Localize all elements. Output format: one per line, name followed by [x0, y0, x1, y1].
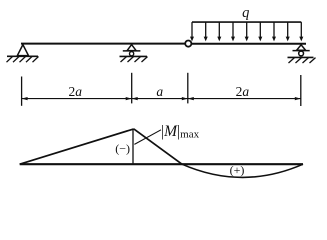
moment right descent line: [134, 129, 182, 164]
dim arrow right of a segment: [182, 97, 188, 100]
support A ground line: [7, 55, 38, 57]
support B base line: [123, 50, 141, 52]
dimension extension tick at A: [21, 77, 23, 106]
moment diagram left slope line: [20, 129, 134, 164]
dim arrow left of right 2a segment: [188, 97, 194, 100]
svg-text:a: a: [156, 84, 163, 99]
right beam C-D: [191, 43, 306, 45]
load arrow 1: [190, 22, 194, 41]
load arrow 2: [204, 22, 208, 41]
dim arrow right of 2a segment: [126, 97, 132, 100]
support D ground line: [288, 56, 314, 58]
load arrow 7: [272, 22, 276, 41]
support B roller circle: [130, 52, 134, 56]
support B hatching: [121, 57, 148, 62]
svg-text:q: q: [242, 5, 249, 21]
load arrow 3: [217, 22, 221, 41]
dimension extension tick at B: [131, 73, 133, 104]
dimension line: [22, 98, 301, 100]
support B ground line: [120, 55, 148, 57]
svg-text:|M|max: |M|max: [161, 123, 200, 140]
svg-text:(+): (+): [230, 163, 245, 177]
support D roller circle: [299, 51, 304, 56]
moment parabola (positive region): [182, 164, 303, 177]
hinge C: [185, 41, 191, 47]
moment diagram baseline: [20, 163, 303, 165]
support A hatching: [7, 57, 39, 63]
svg-text:2a: 2a: [68, 84, 82, 99]
dim arrow left of 2a segment: [22, 97, 28, 100]
support D hatching: [289, 58, 316, 63]
svg-text:(−): (−): [115, 141, 130, 155]
moment peak ordinate line: [132, 129, 134, 164]
load arrow 9: [299, 22, 303, 41]
pin support A triangle: [17, 45, 28, 56]
left beam A-C: [21, 43, 185, 45]
support D base line: [293, 50, 310, 52]
dim arrow right of right 2a segment: [295, 97, 301, 100]
distributed load top bar: [192, 21, 301, 23]
dimension extension tick at C: [187, 73, 189, 104]
load arrow 4: [231, 22, 235, 41]
roller support B triangle: [127, 45, 136, 51]
load arrow 6: [258, 22, 262, 41]
load arrow 5: [245, 22, 249, 41]
leader line to Mmax: [134, 130, 161, 145]
roller support D triangle: [297, 45, 306, 51]
dimension extension tick at D: [300, 75, 302, 106]
load arrow 8: [286, 22, 290, 41]
svg-text:2a: 2a: [236, 84, 250, 99]
dim arrow left of a segment: [132, 97, 138, 100]
